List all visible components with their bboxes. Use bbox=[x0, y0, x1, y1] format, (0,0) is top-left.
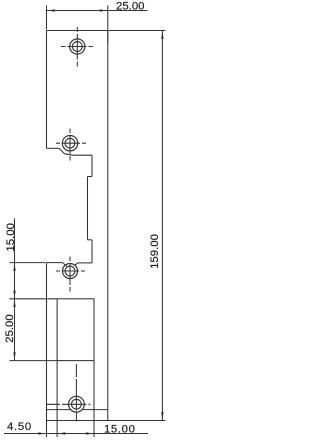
hole C2 vertical centerline bbox=[69, 129, 71, 161]
dim 15.00 left dimension line with upward text extension bbox=[14, 219, 16, 299]
hole C1 inner circle bbox=[72, 42, 82, 52]
chamfer below hole C2 bbox=[59, 148, 65, 154]
hole C3 horizontal centerline bbox=[56, 270, 85, 272]
dim 25.00 left bottom arrowhead bbox=[13, 352, 16, 359]
faceplate top edge bbox=[47, 30, 109, 32]
hole C1 horizontal centerline bbox=[61, 46, 93, 48]
lower plate top edge left segment bbox=[47, 262, 63, 264]
lower plate top edge right chamfer bbox=[74, 263, 78, 266]
dim 15.00 left bottom arrowhead bbox=[13, 291, 16, 298]
bottom edge bbox=[47, 420, 109, 422]
dim 159.00 dimension line bbox=[161, 31, 163, 421]
hole C2 outer circle bbox=[62, 136, 77, 151]
keeper opening rectangle bbox=[57, 299, 94, 361]
svg-text:15.00: 15.00 bbox=[104, 423, 136, 435]
hole C3 vertical centerline bbox=[69, 257, 71, 292]
hole C2 inner circle bbox=[65, 138, 75, 148]
dim 25.00 top right extension line bbox=[107, 6, 109, 44]
extension line bottom for 159.00 dim bbox=[108, 420, 166, 422]
faceplate left edge bbox=[46, 31, 48, 149]
body right-step edge upper bbox=[91, 155, 93, 176]
keeper tab left edge bbox=[87, 177, 89, 240]
svg-text:25.00: 25.00 bbox=[4, 314, 16, 343]
step shoulder top bbox=[88, 176, 93, 178]
dim 4.50 left extension line bbox=[46, 421, 48, 438]
dim 159.00 top arrowhead bbox=[161, 31, 164, 38]
dim 4.50 right-pointing arrowhead bbox=[38, 432, 45, 435]
lower plate top edge left chamfer bbox=[62, 263, 67, 267]
tab bottom edge bbox=[73, 154, 92, 156]
faceplate bottom edge bbox=[47, 147, 60, 149]
extension line top for 159.00 dim bbox=[108, 30, 166, 32]
dim 15.00 left top arrowhead bbox=[13, 264, 16, 271]
shared extension line at opening left edge bbox=[56, 361, 58, 437]
dim 25.00 left top arrowhead bbox=[13, 300, 16, 307]
svg-text:25.00: 25.00 bbox=[116, 1, 145, 13]
dim 15.00 bottom right extension line bbox=[93, 361, 95, 437]
dim 15.00 left upper extension line bbox=[10, 262, 46, 264]
dim 25.00 top dimension line bbox=[47, 10, 148, 12]
dim 15.00 bottom right arrowhead bbox=[86, 432, 93, 435]
dim 15.00 left lower extension line bbox=[10, 298, 57, 300]
hole C4 vertical centerline bbox=[75, 364, 77, 424]
right edge bbox=[107, 31, 109, 421]
hole C1 outer circle bbox=[70, 39, 85, 54]
hole C3 outer circle bbox=[63, 264, 78, 279]
step shoulder bottom bbox=[88, 239, 93, 241]
lower plate top edge right segment bbox=[78, 262, 92, 264]
body right-step edge lower bbox=[91, 240, 93, 263]
dim 25.00 top right arrowhead bbox=[100, 9, 107, 12]
svg-text:4.50: 4.50 bbox=[7, 421, 32, 433]
hole C1 vertical centerline bbox=[76, 27, 78, 67]
hole C4 horizontal centerline bbox=[47, 403, 91, 405]
dim 159.00 bottom arrowhead bbox=[161, 412, 164, 419]
hole C3 inner circle bbox=[65, 266, 75, 276]
hole C2 horizontal centerline bbox=[56, 142, 86, 144]
dim 15.00 bottom left arrowhead bbox=[58, 432, 65, 435]
hole C4 inner circle bbox=[72, 399, 82, 409]
dim 25.00 left lower extension line bbox=[10, 360, 57, 362]
lower plate fold line right segment bbox=[82, 409, 108, 411]
lower plate fold line bbox=[47, 409, 71, 411]
dim 25.00 left dimension line bbox=[14, 299, 16, 361]
bottom dimension line for 4.50 and 15.00 bbox=[4, 433, 148, 435]
dim 25.00 top left arrowhead bbox=[47, 9, 54, 12]
svg-text:159.00: 159.00 bbox=[149, 234, 161, 269]
hole C4 outer circle bbox=[69, 396, 85, 412]
dim 25.00 top left extension line bbox=[46, 6, 48, 30]
lower plate left edge bbox=[46, 263, 48, 421]
chamfer to tab bottom bbox=[65, 154, 74, 155]
svg-text:15.00: 15.00 bbox=[5, 223, 17, 252]
